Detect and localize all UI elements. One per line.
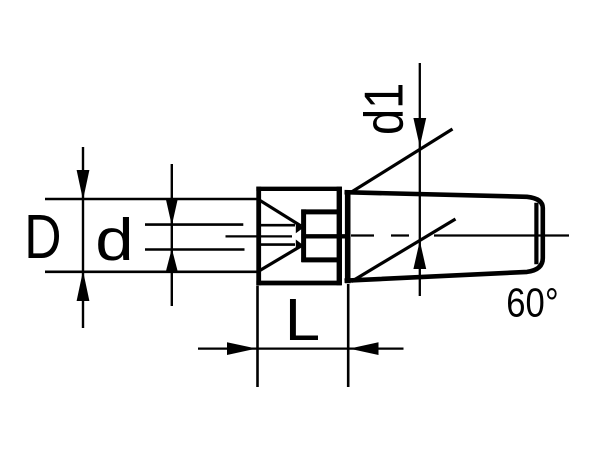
arrowhead D upper: [77, 170, 90, 200]
extension line D bottom: [45, 270, 257, 273]
cone apex upper junction: [296, 222, 304, 233]
body bottom edge: [256, 281, 341, 286]
extension line d top: [145, 223, 243, 226]
extension line L right: [347, 284, 350, 387]
dimension line D: [82, 147, 84, 328]
bore left edge: [301, 209, 306, 262]
taper slant reference lower: [352, 219, 456, 282]
dimension line d1: [419, 63, 421, 296]
body right edge: [337, 187, 342, 286]
dimension line d: [171, 164, 173, 306]
arrowhead d1 upper: [413, 118, 426, 147]
extension line D top: [45, 198, 257, 201]
arrowhead L right: [349, 342, 378, 355]
arrowhead d upper: [166, 198, 178, 226]
taper gauge edge: [345, 192, 351, 283]
extension line L left: [256, 286, 259, 387]
body top edge: [256, 187, 341, 191]
arrowhead d lower: [166, 249, 178, 273]
svg-text:L: L: [285, 286, 320, 352]
extension line d bottom: [145, 248, 245, 251]
arrowhead D lower: [77, 271, 90, 301]
body left edge: [256, 187, 261, 286]
cone upper line: [260, 200, 301, 226]
taper slant reference upper: [352, 129, 453, 192]
dimension line L: [198, 347, 404, 349]
bore mid line: [301, 234, 345, 238]
taper end face line: [534, 203, 538, 264]
svg-text:d1: d1: [353, 83, 414, 135]
bore top edge: [301, 209, 341, 214]
bore bottom outline: [258, 243, 295, 246]
svg-text:d: d: [95, 207, 133, 273]
arrowhead L left: [227, 342, 256, 355]
bore bottom edge: [301, 257, 341, 262]
svg-text:D: D: [24, 203, 61, 273]
svg-text:60°: 60°: [506, 281, 558, 326]
centerline: [226, 234, 570, 237]
taper outline: [345, 192, 543, 281]
bore top outline: [258, 224, 295, 227]
arrowhead d1 lower: [413, 241, 426, 269]
cone lower line: [260, 246, 301, 271]
cone apex lower junction: [296, 240, 304, 251]
